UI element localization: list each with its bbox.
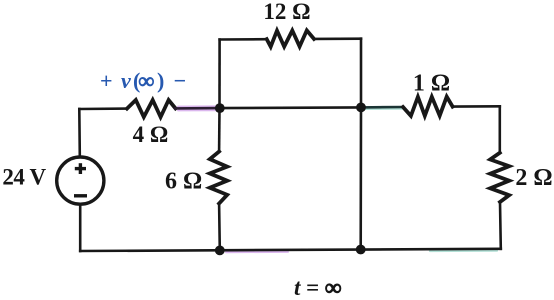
wire 6-ohm down to bottom node C: [218, 204, 221, 251]
svg-text:4 Ω: 4 Ω: [133, 122, 169, 147]
wire top-left horizontal to 4-ohm: [79, 107, 127, 110]
svg-text:t = ∞: t = ∞: [294, 275, 341, 300]
node D junction dot: [356, 245, 366, 255]
node B junction dot: [356, 103, 366, 113]
voltage source V1 circle: [57, 157, 104, 204]
wire 4-ohm to node A: [176, 107, 220, 110]
resistor R3 1ohm zigzag: [403, 97, 453, 116]
wire right vertical below 2-ohm to bottom-right corner: [499, 202, 502, 249]
svg-text:+v(∞)−: +v(∞)−: [100, 68, 186, 93]
wire fringe teal (node B to 1-ohm): [366, 108, 402, 110]
wire bottom horizontal: [80, 249, 501, 251]
wire fringe teal (bottom, left of bottom-right corner): [430, 250, 497, 253]
svg-text:24 V: 24 V: [2, 165, 46, 190]
svg-text:12 Ω: 12 Ω: [263, 0, 310, 24]
wire top branch left: [220, 38, 267, 41]
resistor R1 4ohm zigzag: [127, 100, 176, 117]
wire fringe purple (bottom, right of node C): [226, 251, 288, 253]
svg-text:2 Ω: 2 Ω: [515, 165, 552, 191]
wire top branch right vertical down to node B: [360, 39, 363, 108]
wire top branch right: [314, 37, 361, 40]
node A junction dot: [215, 103, 225, 113]
wire fringe purple (4-ohm to node A): [178, 105, 216, 107]
resistor R4 2ohm vertical zigzag: [490, 153, 509, 202]
wire right vertical above 2-ohm: [498, 106, 501, 153]
svg-text:6 Ω: 6 Ω: [165, 168, 202, 194]
wire 1-ohm to top-right corner: [453, 105, 500, 108]
wire node A up to top branch: [218, 40, 221, 109]
node C junction dot: [215, 246, 225, 256]
resistor R5 6ohm vertical zigzag: [210, 152, 227, 204]
wire node B to 1-ohm: [361, 106, 403, 109]
voltage source minus sign: [74, 194, 87, 197]
wire left vertical bottom (source to bottom-left corner): [79, 206, 82, 251]
wire left vertical top (source to top-left corner): [78, 109, 81, 156]
resistor R2 12ohm zigzag: [267, 30, 314, 46]
wire node A down to 6-ohm: [218, 108, 221, 151]
voltage source plus sign: [75, 167, 86, 170]
svg-text:1 Ω: 1 Ω: [413, 71, 450, 97]
wire node B down to bottom node D: [359, 107, 362, 249]
wire middle node A to node B: [220, 106, 362, 109]
